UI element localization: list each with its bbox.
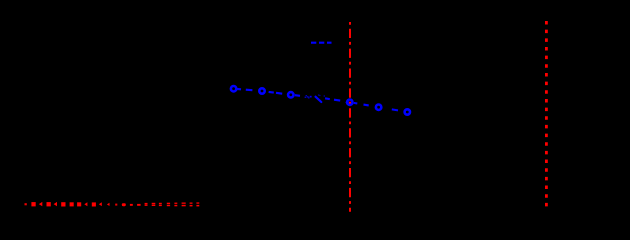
red left-triangle markers: [39, 202, 110, 206]
single red dashes: [130, 204, 133, 206]
small left-triangle blob at crossing point: [345, 100, 349, 104]
red square markers: [31, 202, 96, 206]
thick rounded red dash: [122, 203, 126, 206]
legend dashed-line sample (blue): [311, 42, 332, 44]
bottom-left red series: dash: [25, 203, 27, 205]
diverging double-dash pair (lower line dashes): [145, 204, 200, 206]
faint blue specks near diagonal: [305, 95, 310, 99]
red vertical dash-dot line (left): [349, 22, 351, 212]
blue open-circle markers: [231, 86, 410, 115]
blue dashed data line (hand-placed dashes): [237, 89, 399, 111]
red vertical dotted line (right): [545, 21, 548, 206]
steep blue diagonal stroke: [316, 97, 322, 102]
small red dot: [115, 204, 117, 206]
diverging double-dash pair (upper line dashes): [145, 202, 200, 204]
